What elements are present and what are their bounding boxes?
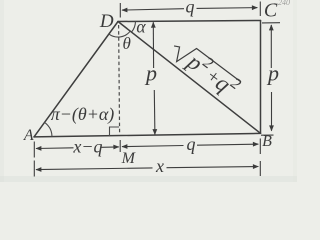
svg-text:π−(θ+α): π−(θ+α) xyxy=(51,104,115,125)
svg-text:p: p xyxy=(144,61,157,86)
svg-text:C: C xyxy=(264,0,278,22)
svg-text:θ: θ xyxy=(123,34,131,53)
svg-text:p: p xyxy=(266,61,279,86)
svg-text:α: α xyxy=(136,16,146,36)
svg-text:B: B xyxy=(262,133,272,150)
svg-text:q: q xyxy=(186,0,195,17)
svg-text:M: M xyxy=(121,150,137,167)
svg-text:D: D xyxy=(99,11,114,32)
svg-text:q: q xyxy=(187,134,196,154)
svg-text:x: x xyxy=(155,156,164,176)
svg-text:A: A xyxy=(23,127,34,144)
svg-text:x−q: x−q xyxy=(72,137,102,157)
